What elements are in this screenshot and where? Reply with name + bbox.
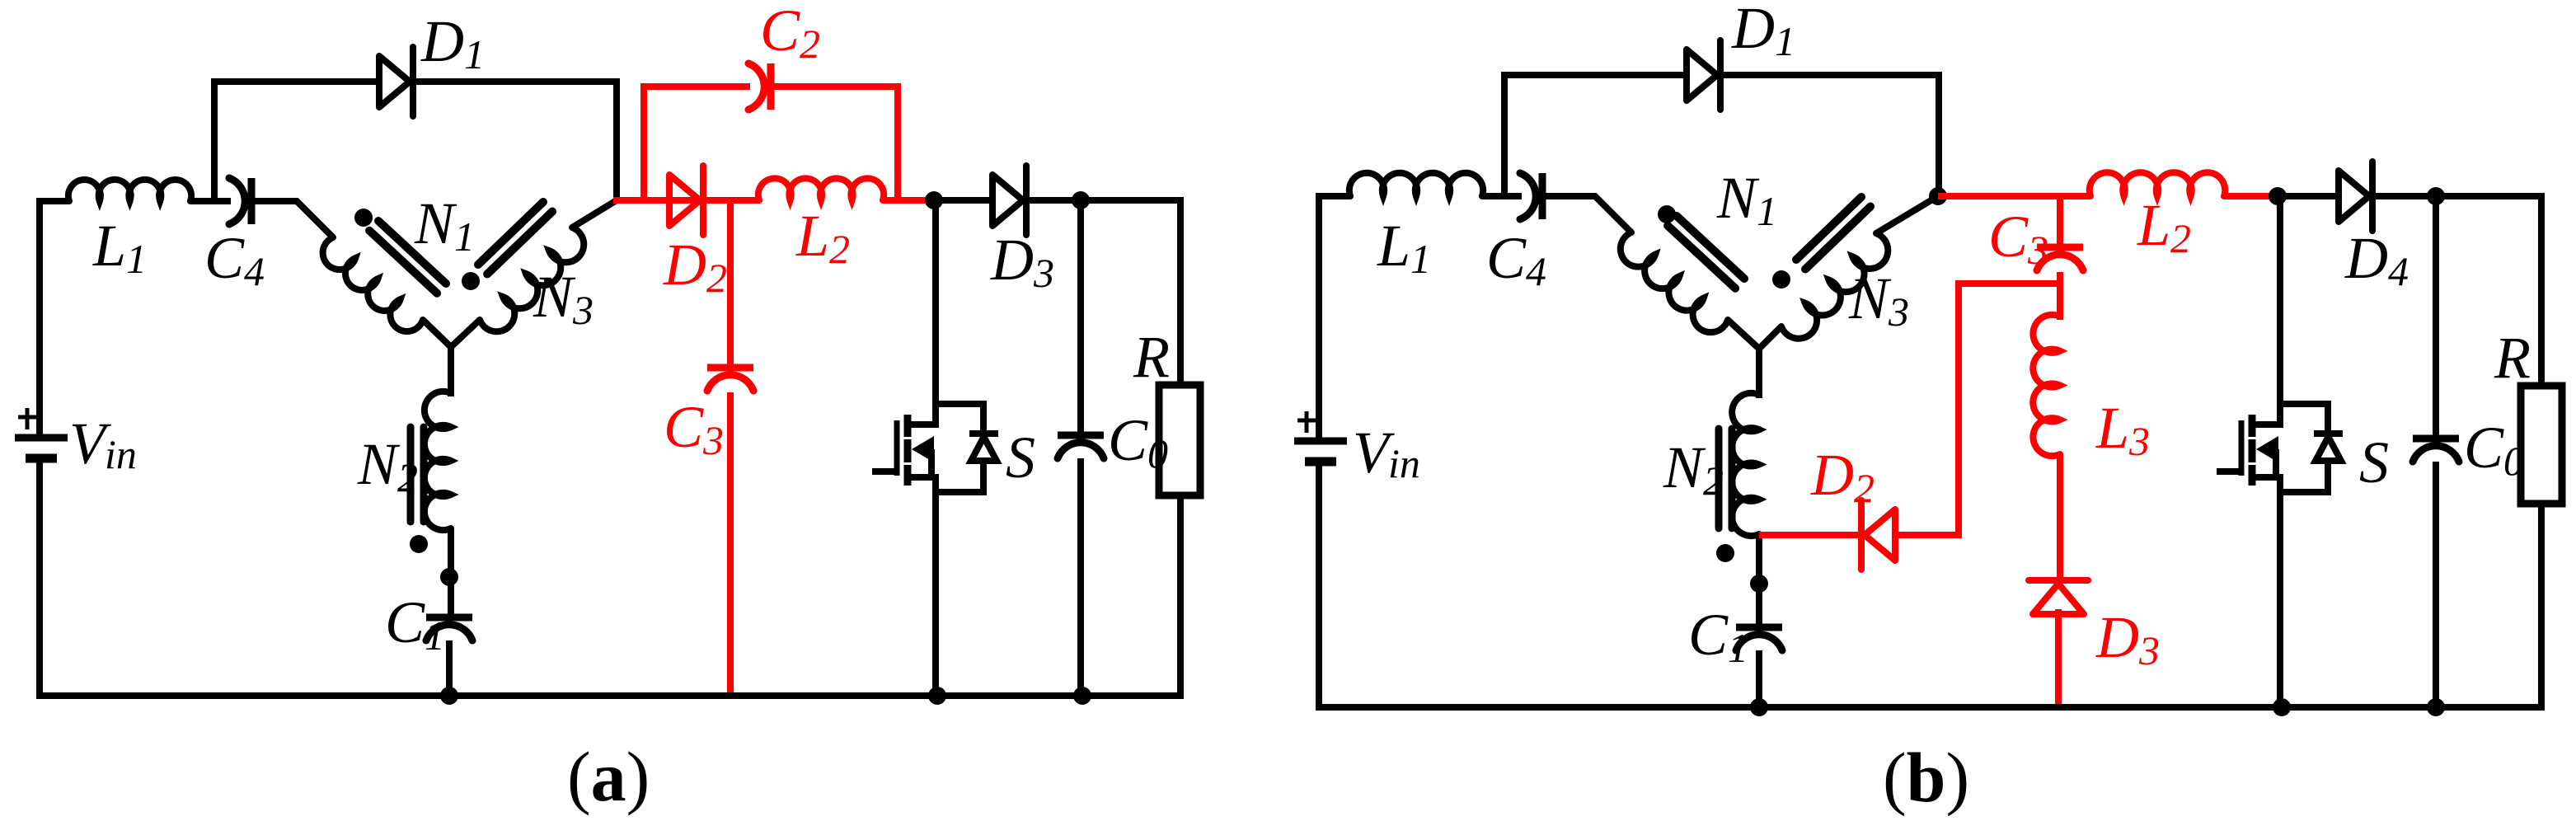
wire: output top to R corner (a) — [1081, 200, 1180, 385]
capacitor C3 (b) — [2037, 247, 2083, 270]
wire: C3/D2 tee horizontal (b) — [1959, 284, 2060, 538]
junction: N2-C1 wire dot (b) — [1750, 575, 1768, 593]
svg-text:N3: N3 — [533, 264, 594, 333]
node: C4/D1 branch vertical (b) — [1501, 72, 1508, 193]
resistor R (b) — [2521, 386, 2562, 504]
wire: L1 to C4 (b) — [1482, 193, 1522, 199]
battery Vin (b) — [1294, 411, 1347, 462]
wire: D2 to riser (b) — [1895, 532, 1962, 538]
svg-text:S: S — [2359, 429, 2389, 495]
svg-text:S: S — [1006, 425, 1035, 490]
wire: R bottom to rail corner (a) — [730, 495, 1180, 696]
svg-text:L3: L3 — [2095, 395, 2150, 464]
wire: D3 to output node (a) — [1026, 197, 1081, 204]
core bars N3 (b) — [1796, 197, 1870, 270]
wire: N3 to D1 node (a) — [572, 200, 617, 228]
wire: L2 to switch node (b) — [2224, 193, 2278, 199]
wire: D1 to N3 node vertical (a) — [613, 78, 620, 200]
wire: R bottom to rail corner (b) — [2058, 504, 2541, 707]
label D4 (b) — [2344, 225, 2409, 294]
wire: circuit (a) input left rail from L1 down to Vin — [40, 201, 69, 438]
node: C4/D1 branch vertical (a) — [211, 78, 218, 198]
junction: source-rail dot (a) — [928, 687, 946, 705]
transistor S (b) — [2217, 398, 2343, 492]
wire: C2 right segment and riser (a) — [774, 87, 898, 200]
label C0 (a) — [1108, 407, 1168, 476]
junction: N3/D1/L2 node dot (b) — [1929, 187, 1947, 205]
wire: bottom rail (a) — [40, 692, 734, 699]
label L1 (b) — [1377, 213, 1431, 282]
capacitor C1 (a) — [426, 617, 472, 640]
label D1 (b) — [1731, 0, 1795, 64]
label C4 (b) — [1486, 225, 1546, 294]
label D2 (a) — [663, 232, 727, 301]
svg-text:R: R — [1133, 324, 1170, 390]
winding N3 (b) — [1781, 233, 1888, 339]
diode D1 (a) — [379, 47, 413, 116]
junction: N2-C1 wire dot (a) — [440, 568, 458, 586]
core bars N2 (a) — [411, 427, 424, 522]
junction: C1-rail dot (b) — [1750, 698, 1768, 716]
wire: N2 to C1 (a) — [448, 528, 454, 617]
capacitor C0 (b) — [2413, 439, 2459, 462]
label N3 (b) — [1848, 265, 1909, 335]
capacitor C4 (a) — [229, 178, 251, 224]
wire: D1 top rail left segment (b) — [1501, 72, 1687, 78]
label D3 (b) — [2095, 604, 2160, 673]
core bars N2 (b) — [1719, 429, 1732, 528]
label C1 (b) — [1688, 602, 1748, 671]
label caption (b) — [1883, 738, 1969, 817]
wire: D2/C3 junction vertical (a) — [727, 200, 734, 364]
wire: N2 to C1 (b) — [1756, 534, 1762, 627]
svg-text:N2: N2 — [1663, 434, 1724, 504]
junction: output node dot (b) — [2427, 187, 2445, 205]
wire: C4 to N1 (b) — [1546, 196, 1631, 232]
capacitor C4 (b) — [1520, 173, 1542, 219]
svg-text:R: R — [2494, 325, 2531, 391]
inductor L1 (a) — [68, 180, 191, 201]
wire: switch node to D3 (a) — [934, 197, 992, 204]
label C1 (a) — [385, 589, 445, 659]
winding N2 (a) — [425, 392, 451, 530]
polarity dot N3 (b) — [1772, 270, 1790, 289]
capacitor C2 (a) — [748, 63, 771, 110]
svg-text:D3: D3 — [2095, 604, 2160, 673]
winding N3 (a) — [480, 228, 584, 331]
wire: D1 top rail left segment (a) — [211, 78, 379, 85]
wire: switch node to D4 (b) — [2278, 193, 2338, 199]
svg-text:N1: N1 — [414, 190, 475, 260]
junction: switch node dot (b) — [2269, 187, 2287, 205]
svg-text:in: in — [1388, 440, 1420, 486]
svg-text:L2: L2 — [795, 203, 850, 272]
polarity dot N1 (a) — [354, 209, 373, 227]
svg-text:D2: D2 — [1810, 442, 1875, 511]
wire: MOSFET source to bottom rail (b) — [2277, 477, 2283, 711]
wire: C1 to bottom rail (b) — [1756, 650, 1762, 711]
svg-text:D4: D4 — [2344, 225, 2409, 294]
polarity dot N2 (b) — [1716, 544, 1734, 562]
svg-text:N1: N1 — [1716, 165, 1777, 234]
svg-text:L1: L1 — [1377, 213, 1431, 282]
label N1 (a) — [414, 190, 475, 260]
label C0 (b) — [2464, 415, 2524, 484]
inductor L2 (a) — [758, 178, 884, 200]
wire: L2 to output node (a) — [883, 197, 934, 204]
label caption (a) — [567, 737, 650, 816]
capacitor C1 (b) — [1736, 627, 1782, 650]
svg-text:in: in — [105, 431, 137, 477]
polarity dot N2 (a) — [410, 535, 428, 553]
svg-text:D1: D1 — [1731, 0, 1795, 64]
svg-text:L1: L1 — [92, 213, 147, 282]
wire: C2 left riser (a) — [644, 87, 750, 200]
wire: D3 to bottom rail (b) — [2055, 609, 2062, 707]
wire: Y-center to N3 (b) — [1759, 326, 1781, 349]
label C3 (b) — [1988, 204, 2048, 273]
label Vin (a) — [69, 410, 137, 477]
label Vin (b) — [1353, 420, 1420, 486]
resistor R (a) — [1159, 385, 1200, 495]
wire: D2 to L2 (a) — [639, 197, 759, 204]
wire: L1 to C4 (a) — [190, 198, 231, 204]
label N3 (a) — [533, 264, 594, 333]
svg-text:C4: C4 — [204, 225, 265, 294]
svg-text:C3: C3 — [1988, 204, 2048, 273]
label R (a) — [1133, 324, 1170, 390]
label L2 (b) — [2137, 192, 2191, 261]
diode D3 (b) — [2029, 580, 2088, 614]
wire: Vin negative to bottom rail (b) — [1316, 462, 1322, 711]
wire: C3 top stub (b) — [2057, 196, 2063, 247]
label N2 (a) — [357, 431, 418, 500]
label R (b) — [2494, 325, 2531, 391]
battery Vin (a) — [15, 408, 68, 458]
label C2 (a) — [760, 0, 820, 67]
wire: D1 top rail right segment (a) — [415, 78, 620, 85]
wire: D1 top rail right segment (b) — [1723, 72, 1942, 78]
inductor L3 (b) — [2033, 315, 2060, 456]
diode D1 (b) — [1687, 40, 1720, 110]
label C4 (a) — [204, 225, 265, 294]
winding N1 (a) — [323, 237, 423, 331]
svg-text:D3: D3 — [990, 227, 1054, 296]
svg-text:D1: D1 — [420, 8, 485, 77]
wire: bottom rail (b) — [1319, 704, 2062, 711]
label D3 (a) — [990, 227, 1054, 296]
core bars N1 (b) — [1668, 216, 1744, 289]
wire: L3 to D3 (b) — [2057, 454, 2063, 580]
diode D3 (a) — [992, 166, 1026, 235]
label N1 (b) — [1716, 165, 1777, 234]
wire: C1 to bottom rail (a) — [446, 640, 453, 699]
inductor L2 (b) — [2090, 172, 2226, 196]
wire: D4 to output node (b) — [2372, 193, 2436, 199]
diode D4 (b) — [2339, 162, 2372, 231]
wire: C3 to bottom rail (a) — [727, 392, 734, 696]
junction: C1-rail dot (a) — [440, 687, 458, 705]
svg-text:C0: C0 — [2464, 415, 2524, 484]
winding N1 (b) — [1621, 232, 1728, 332]
diode D2 (b) — [1861, 500, 1895, 570]
wire: C4 to N1 (a) — [255, 201, 333, 237]
label L3 (b) — [2095, 395, 2150, 464]
capacitor C3 (a) — [707, 368, 753, 391]
svg-text:L2: L2 — [2137, 192, 2191, 261]
wire: C3 bottom to L3 (b) — [2057, 272, 2063, 320]
wire: N1 to Y-center (b) — [1728, 320, 1759, 398]
wire: MOSFET drain from switch node (b) — [2277, 196, 2283, 404]
label D2 (b) — [1810, 442, 1875, 511]
wire: C0 to bottom rail (b) — [2433, 462, 2439, 711]
svg-text:(b): (b) — [1883, 738, 1969, 817]
label N2 (b) — [1663, 434, 1724, 504]
label C3 (a) — [664, 394, 724, 463]
junction: switch node dot (a) — [925, 191, 943, 209]
wire: C0 branch vertical (a) — [1077, 200, 1084, 435]
wire: N3 to node (b) — [1876, 196, 1938, 233]
wire: C0 to bottom rail (a) — [1077, 458, 1084, 699]
wire: node to L2 (b) — [1938, 193, 2090, 199]
label L2 (a) — [795, 203, 850, 272]
diode D2 (a) — [669, 166, 703, 235]
svg-text:C1: C1 — [1688, 602, 1748, 671]
winding N2 (b) — [1732, 393, 1759, 536]
wire: N1 to Y-center (a) — [423, 320, 451, 396]
label S (a) — [1006, 425, 1035, 490]
label D1 (a) — [420, 8, 485, 77]
transistor S (a) — [872, 398, 998, 492]
svg-text:D2: D2 — [663, 232, 727, 301]
svg-text:C1: C1 — [385, 589, 445, 659]
capacitor C0 (a) — [1058, 435, 1104, 458]
wire: C0 branch vertical (b) — [2433, 196, 2439, 439]
svg-text:C2: C2 — [760, 0, 820, 67]
svg-text:C3: C3 — [664, 394, 724, 463]
junction: output node dot (a) — [1072, 191, 1090, 209]
junction: C0-rail dot (a) — [1073, 687, 1091, 705]
polarity dot N1 (b) — [1658, 205, 1676, 223]
wire: N2 to D2 (b) — [1759, 532, 1865, 538]
core bars N3 (a) — [478, 202, 552, 274]
wire: D1 to N3 node vertical (b) — [1936, 72, 1942, 196]
wire: node to D2 (a) — [613, 197, 639, 204]
inductor L1 (b) — [1349, 173, 1483, 196]
junction: C0-rail dot (b) — [2427, 698, 2445, 716]
label S (b) — [2359, 429, 2389, 495]
svg-text:N3: N3 — [1848, 265, 1909, 335]
wire: Y-center to N3 (a) — [451, 320, 480, 347]
polarity dot N3 (a) — [462, 272, 480, 290]
svg-text:(a): (a) — [567, 737, 650, 816]
wire: MOSFET source to bottom rail (a) — [932, 477, 939, 699]
wire: MOSFET drain from switch node (a) — [932, 200, 939, 404]
label L1 (a) — [92, 213, 147, 282]
svg-text:C4: C4 — [1486, 225, 1546, 294]
core bars N1 (a) — [369, 221, 446, 293]
wire: output top to R corner (b) — [2436, 196, 2541, 386]
wire: Vin negative to bottom rail (a) — [36, 458, 43, 699]
junction: source-rail dot (b) — [2273, 698, 2291, 716]
wire: circuit (b) input left rail from L1 down to Vin — [1319, 196, 1350, 441]
